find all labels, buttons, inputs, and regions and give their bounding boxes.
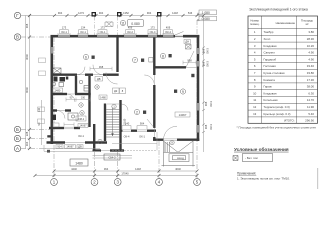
svg-text:Гардероб: Гардероб xyxy=(264,57,277,61)
svg-text:1480: 1480 xyxy=(100,95,106,99)
svg-text:173: 173 xyxy=(62,26,67,30)
svg-text:409: 409 xyxy=(128,26,133,30)
svg-text:9: 9 xyxy=(182,90,184,94)
svg-text:3040: 3040 xyxy=(25,54,29,60)
svg-text:ДВ: ДВ xyxy=(78,145,82,149)
svg-text:помещ.: помещ. xyxy=(250,22,260,26)
svg-text:134: 134 xyxy=(81,26,86,30)
svg-text:А: А xyxy=(16,146,19,151)
svg-text:4.90: 4.90 xyxy=(308,51,314,55)
svg-text:Экспликация помещений 1-ого эт: Экспликация помещений 1-ого этажа xyxy=(249,8,308,12)
svg-text:ОК-1: ОК-1 xyxy=(61,30,67,34)
svg-text:11: 11 xyxy=(253,98,256,102)
svg-text:173: 173 xyxy=(150,26,155,30)
svg-text:140: 140 xyxy=(125,122,130,126)
svg-text:368: 368 xyxy=(99,65,104,69)
svg-text:173: 173 xyxy=(100,26,105,30)
svg-text:Тамбур: Тамбур xyxy=(264,30,274,34)
svg-text:5.40: 5.40 xyxy=(308,112,314,116)
svg-text:ИТОГО:: ИТОГО: xyxy=(284,119,295,123)
svg-text:28.30: 28.30 xyxy=(307,37,315,41)
svg-text:1480: 1480 xyxy=(75,161,83,165)
svg-text:296.90: 296.90 xyxy=(305,119,314,123)
svg-text:ОК-4: ОК-4 xyxy=(165,30,171,34)
svg-text:Кухня-столовая: Кухня-столовая xyxy=(264,71,285,75)
svg-text:10.20: 10.20 xyxy=(307,44,315,48)
svg-text:304: 304 xyxy=(25,141,29,146)
svg-text:14067: 14067 xyxy=(79,124,87,128)
svg-text:904: 904 xyxy=(58,11,63,15)
svg-text:914: 914 xyxy=(57,145,62,149)
svg-text:Крыльцо (коэф. 0.3): Крыльцо (коэф. 0.3) xyxy=(264,112,291,116)
svg-text:ОК-4: ОК-4 xyxy=(124,134,130,138)
svg-text:1273: 1273 xyxy=(78,11,84,15)
svg-text:СМ-2: СМ-2 xyxy=(108,156,116,160)
svg-text:6.30: 6.30 xyxy=(308,91,314,95)
svg-text:33.80: 33.80 xyxy=(307,71,315,75)
svg-text:14.70: 14.70 xyxy=(307,98,315,102)
svg-text:Санузел: Санузел xyxy=(264,51,276,55)
svg-text:Примечания:: Примечания: xyxy=(237,172,256,176)
svg-text:12: 12 xyxy=(253,105,257,109)
svg-text:1480: 1480 xyxy=(55,89,61,93)
svg-text:7: 7 xyxy=(134,58,136,62)
svg-text:ОК-1: ОК-1 xyxy=(80,30,86,34)
svg-text:908: 908 xyxy=(202,61,206,66)
svg-text:364: 364 xyxy=(104,167,109,171)
svg-text:17040: 17040 xyxy=(121,172,129,176)
svg-text:13: 13 xyxy=(253,112,257,116)
svg-text:Б: Б xyxy=(16,136,19,141)
svg-text:* Площадь помещений без учета: * Площадь помещений без учета отделочных… xyxy=(237,126,317,130)
svg-text:2: 2 xyxy=(136,110,138,114)
svg-text:17.30: 17.30 xyxy=(307,78,315,82)
svg-text:ДК: ДК xyxy=(114,89,118,93)
svg-text:904: 904 xyxy=(140,122,145,126)
svg-text:ДН: ДН xyxy=(185,40,189,44)
svg-text:В: В xyxy=(16,35,19,40)
svg-text:908: 908 xyxy=(187,59,192,63)
svg-text:СМ-1: СМ-1 xyxy=(78,117,85,121)
svg-text:ОК-4: ОК-4 xyxy=(150,30,156,34)
svg-text:228: 228 xyxy=(25,131,29,136)
svg-text:908: 908 xyxy=(25,23,29,28)
svg-text:ОК-1: ОК-1 xyxy=(100,30,106,34)
svg-text:Терраса (коэф. 0.3): Терраса (коэф. 0.3) xyxy=(264,105,290,109)
svg-text:Условные обозначения: Условные обозначения xyxy=(234,146,289,152)
svg-text:1352: 1352 xyxy=(123,11,129,15)
svg-text:1418: 1418 xyxy=(135,167,141,171)
svg-text:4040: 4040 xyxy=(175,167,181,171)
svg-text:908: 908 xyxy=(204,124,208,129)
svg-text:0.080: 0.080 xyxy=(131,22,140,26)
svg-text:Котельная: Котельная xyxy=(264,98,278,102)
svg-text:904: 904 xyxy=(147,11,152,15)
svg-text:-0.080: -0.080 xyxy=(201,17,211,21)
svg-text:14067: 14067 xyxy=(66,145,74,149)
svg-text:3.80: 3.80 xyxy=(308,30,314,34)
svg-text:11: 11 xyxy=(121,21,125,25)
svg-text:6: 6 xyxy=(85,55,87,59)
svg-text:-1.080: -1.080 xyxy=(201,11,211,15)
svg-text:11.90: 11.90 xyxy=(307,105,314,109)
svg-text:9040: 9040 xyxy=(25,87,29,93)
svg-text:Холл: Холл xyxy=(264,37,271,41)
svg-text:4.90: 4.90 xyxy=(308,57,314,61)
svg-text:Кладовая: Кладовая xyxy=(264,44,277,48)
svg-text:10: 10 xyxy=(253,91,257,95)
svg-text:м²: м² xyxy=(306,22,309,26)
svg-text:ДВ: ДВ xyxy=(97,77,101,81)
svg-text:Наименование: Наименование xyxy=(276,21,296,25)
svg-text:Гостиная: Гостиная xyxy=(264,64,277,68)
svg-text:546: 546 xyxy=(188,11,193,15)
svg-text:ОК-1: ОК-1 xyxy=(78,134,84,138)
svg-text:ОК-2: ОК-2 xyxy=(127,30,133,34)
svg-text:33.40: 33.40 xyxy=(307,64,315,68)
svg-text:190: 190 xyxy=(81,97,86,100)
svg-text:8: 8 xyxy=(162,54,164,58)
svg-text:ОК-3: ОК-3 xyxy=(206,61,210,67)
svg-text:1. Экспликацию полов см. лист: 1. Экспликацию полов см. лист ТМ10. xyxy=(237,177,290,181)
svg-text:14067: 14067 xyxy=(179,113,187,117)
svg-text:ОК-3: ОК-3 xyxy=(209,101,213,107)
svg-text:Кладовая: Кладовая xyxy=(264,91,277,95)
svg-text:1418: 1418 xyxy=(172,11,178,15)
svg-text:ОК-3: ОК-3 xyxy=(209,124,213,130)
svg-text:409: 409 xyxy=(166,26,171,30)
svg-text:38.00: 38.00 xyxy=(307,85,315,89)
svg-text:Б: Б xyxy=(16,127,19,132)
svg-text:Гараж: Гараж xyxy=(264,85,272,89)
svg-text:вход: вход xyxy=(177,156,184,160)
svg-text:904: 904 xyxy=(99,11,104,15)
svg-text:4440: 4440 xyxy=(71,167,77,171)
svg-text:ОК-1: ОК-1 xyxy=(139,134,145,138)
svg-text:Комната: Комната xyxy=(264,78,276,82)
svg-text:ОК-3: ОК-3 xyxy=(206,48,210,54)
svg-text:- Бет. пол: - Бет. пол xyxy=(245,156,258,160)
